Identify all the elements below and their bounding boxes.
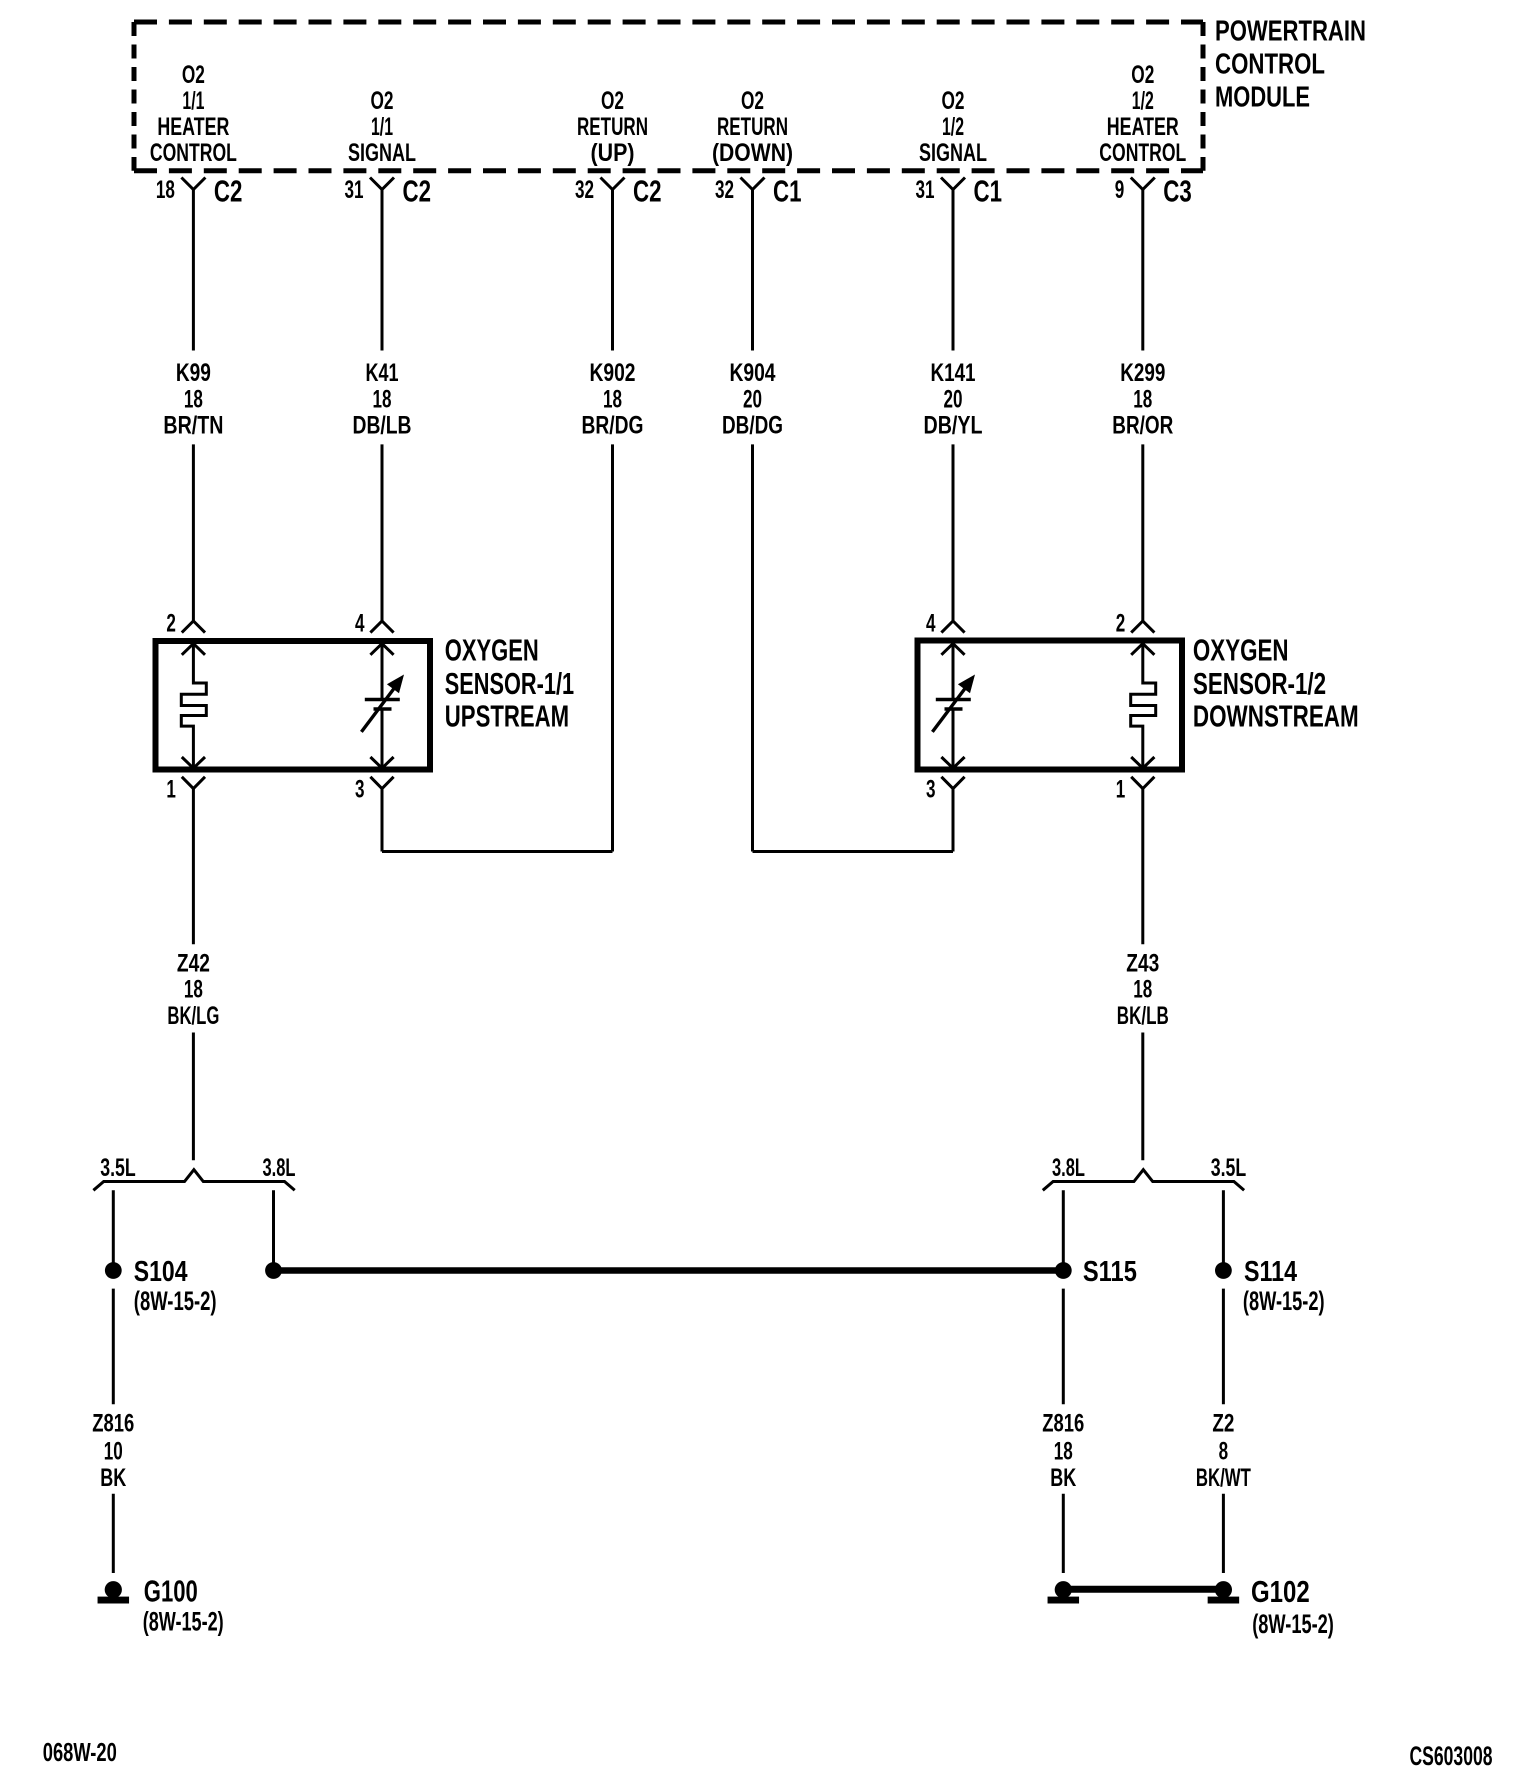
svg-text:BK/LB: BK/LB [1117, 1002, 1169, 1030]
wire from sensor-1/2 pin 3 down [952, 789, 955, 852]
wire Z42 lower segment [192, 1033, 195, 1161]
svg-text:1/2: 1/2 [942, 113, 964, 141]
svg-text:1/1: 1/1 [182, 87, 204, 115]
svg-text:DB/DG: DB/DG [722, 412, 783, 440]
svg-text:31: 31 [916, 176, 935, 204]
svg-text:G102: G102 [1251, 1574, 1310, 1609]
svg-text:1/2: 1/2 [1132, 87, 1154, 115]
svg-text:G100: G100 [144, 1574, 198, 1609]
heater element resistor inside sensor-1/1 [181, 644, 206, 769]
svg-text:1: 1 [166, 776, 176, 804]
sensor-1/1 pin 1 inside chevron [182, 757, 205, 768]
svg-text:4: 4 [355, 610, 365, 638]
variable sensing element inside sensor-1/1 [381, 644, 384, 700]
sensor-1/1 pin 2 outside fork [182, 621, 205, 633]
svg-text:BK: BK [1050, 1464, 1076, 1492]
svg-text:(8W-15-2): (8W-15-2) [134, 1286, 217, 1316]
sensor-1/2 pin 1 outside fork [1131, 777, 1154, 789]
svg-text:10: 10 [104, 1437, 123, 1465]
engine variant split brace (left, Z42) [93, 1170, 294, 1191]
sensor-1/1 pin 1 outside fork [182, 777, 205, 789]
wire Z816 10 BK lower segment [112, 1494, 115, 1573]
svg-text:32: 32 [575, 176, 594, 204]
svg-text:(UP): (UP) [591, 139, 635, 167]
svg-text:RETURN: RETURN [717, 113, 788, 141]
svg-text:C3: C3 [1163, 174, 1192, 209]
sensor-1/1 pin 4 inside chevron [370, 644, 393, 655]
wire from sensor-1/1 pin 3 down [381, 789, 384, 852]
svg-text:O2: O2 [371, 87, 394, 115]
svg-text:18: 18 [184, 976, 203, 1004]
sensor-1/2 pin 1 inside chevron [1131, 757, 1154, 768]
oxygen sensor-1/1 upstream box outline [156, 641, 431, 770]
PCM pin 32 connector C2 fork symbol [601, 178, 625, 190]
wire Z2 8 BK/WT lower segment [1222, 1494, 1225, 1573]
svg-text:(DOWN): (DOWN) [712, 139, 793, 167]
svg-text:O2: O2 [182, 61, 205, 89]
wire K902 lower segment [611, 444, 614, 851]
sensor-1/2 pin 4 inside chevron [941, 644, 964, 655]
sensor-1/1 pin 3 inside chevron [370, 757, 393, 768]
svg-text:CS603008: CS603008 [1410, 1741, 1493, 1771]
svg-text:RETURN: RETURN [577, 113, 648, 141]
svg-text:O2: O2 [942, 87, 965, 115]
svg-text:3.5L: 3.5L [1211, 1154, 1247, 1182]
variable sensing element inside sensor-1/2 [952, 644, 955, 700]
wire 3.5L branch to S114 [1222, 1190, 1225, 1270]
svg-text:K299: K299 [1120, 359, 1165, 387]
svg-text:18: 18 [184, 385, 203, 413]
sensor-1/2 pin 3 outside fork [941, 777, 964, 789]
svg-text:(8W-15-2): (8W-15-2) [143, 1607, 224, 1637]
splice S115 dot [1055, 1262, 1072, 1279]
wire jog from sensor-1/2 pin 3 to K904 (horizontal) [753, 850, 954, 853]
wire 3.8L branch to splice [272, 1190, 275, 1270]
wire Z43 upper segment [1141, 789, 1144, 945]
wire Z42 upper segment [192, 789, 195, 945]
svg-text:C1: C1 [974, 174, 1003, 209]
svg-text:Z43: Z43 [1126, 949, 1159, 977]
svg-text:C1: C1 [773, 174, 802, 209]
ground G102 link wire [1063, 1586, 1223, 1593]
PCM pin 31 connector C1 fork symbol [941, 178, 965, 190]
wire Z43 lower segment [1141, 1033, 1144, 1161]
svg-text:BK/LG: BK/LG [167, 1002, 219, 1030]
svg-text:068W-20: 068W-20 [43, 1737, 117, 1767]
svg-text:(8W-15-2): (8W-15-2) [1243, 1286, 1325, 1316]
oxygen sensor-1/2 downstream box outline [918, 641, 1183, 770]
svg-text:3.5L: 3.5L [100, 1154, 136, 1182]
wire K99 lower segment [192, 444, 195, 621]
svg-text:OXYGEN: OXYGEN [445, 633, 539, 668]
svg-text:MODULE: MODULE [1215, 82, 1310, 114]
svg-text:K141: K141 [931, 359, 976, 387]
svg-text:O2: O2 [601, 87, 624, 115]
svg-text:Z2: Z2 [1212, 1410, 1234, 1438]
wire K99 upper segment [192, 190, 195, 351]
svg-text:K41: K41 [366, 359, 399, 387]
wire Z816 18 BK upper segment (S115 to label) [1062, 1289, 1065, 1405]
svg-text:4: 4 [926, 610, 936, 638]
wire Z2 8 BK/WT upper segment (S114 to label) [1222, 1289, 1225, 1405]
wire Z816 10 BK upper segment (S104 to label) [112, 1289, 115, 1405]
powertrain control module U1 (PCM) dashed enclosure [134, 20, 1203, 25]
svg-text:2: 2 [1116, 610, 1126, 638]
splice S114 dot [1215, 1262, 1232, 1279]
svg-text:20: 20 [743, 385, 762, 413]
svg-text:BR/TN: BR/TN [163, 412, 223, 440]
sensor-1/1 pin 4 outside fork [370, 621, 393, 633]
ground G102 symbol (right) [1215, 1581, 1232, 1598]
svg-text:SENSOR-1/1: SENSOR-1/1 [445, 666, 574, 701]
svg-text:31: 31 [345, 176, 364, 204]
wire K41 lower segment [381, 444, 384, 621]
sensor-1/2 pin 3 inside chevron [941, 757, 964, 768]
svg-text:POWERTRAIN: POWERTRAIN [1215, 16, 1366, 48]
svg-text:2: 2 [166, 610, 176, 638]
PCM pin 18 connector C2 fork symbol [181, 178, 205, 190]
svg-text:Z816: Z816 [1042, 1410, 1084, 1438]
svg-text:3.8L: 3.8L [1052, 1154, 1085, 1182]
splice S104 dot [105, 1262, 122, 1279]
sensor-1/1 pin 3 outside fork [370, 777, 393, 789]
svg-text:HEATER: HEATER [1107, 113, 1179, 141]
svg-text:8: 8 [1219, 1437, 1229, 1465]
svg-text:CONTROL: CONTROL [1099, 139, 1186, 167]
svg-text:1/1: 1/1 [371, 113, 393, 141]
wire jog from sensor-1/1 pin 3 to K902 (horizontal) [382, 850, 613, 853]
wire K299 lower segment [1141, 444, 1144, 621]
wire K299 upper segment [1141, 190, 1144, 351]
wire 3.8L branch to S115 [1062, 1190, 1065, 1270]
svg-text:18: 18 [1133, 385, 1152, 413]
svg-text:18: 18 [1054, 1437, 1073, 1465]
wire K141 upper segment [952, 190, 955, 351]
svg-text:BR/OR: BR/OR [1112, 412, 1173, 440]
svg-text:O2: O2 [1131, 61, 1154, 89]
ground G100 symbol [105, 1581, 122, 1598]
svg-text:O2: O2 [741, 87, 764, 115]
sensor-1/2 pin 2 outside fork [1131, 621, 1154, 633]
svg-text:S115: S115 [1083, 1256, 1137, 1288]
PCM pin 32 connector C1 fork symbol [741, 178, 765, 190]
svg-text:DB/YL: DB/YL [924, 412, 983, 440]
PCM pin 31 connector C2 fork symbol [370, 178, 394, 190]
svg-text:C2: C2 [214, 174, 243, 209]
svg-text:18: 18 [603, 385, 622, 413]
sensor-1/2 pin 2 inside chevron [1131, 644, 1154, 655]
wire K904 upper segment [751, 190, 754, 351]
svg-text:Z42: Z42 [177, 949, 210, 977]
svg-text:SIGNAL: SIGNAL [919, 139, 987, 167]
svg-text:3: 3 [926, 776, 936, 804]
wire 3.5L branch to S104 [112, 1190, 115, 1270]
svg-text:CONTROL: CONTROL [150, 139, 237, 167]
svg-text:S104: S104 [134, 1256, 188, 1288]
wire K41 upper segment [381, 190, 384, 351]
svg-text:18: 18 [373, 385, 392, 413]
svg-text:3: 3 [355, 776, 365, 804]
svg-text:1: 1 [1116, 776, 1126, 804]
svg-text:SENSOR-1/2: SENSOR-1/2 [1193, 666, 1326, 701]
svg-text:OXYGEN: OXYGEN [1193, 633, 1289, 668]
svg-text:Z816: Z816 [92, 1410, 134, 1438]
splice junction dot (3.8L branch) [265, 1262, 282, 1279]
svg-text:HEATER: HEATER [157, 113, 229, 141]
svg-text:18: 18 [1133, 976, 1152, 1004]
heater element resistor inside sensor-1/2 [1131, 644, 1156, 769]
svg-text:20: 20 [944, 385, 963, 413]
svg-text:3.8L: 3.8L [263, 1154, 296, 1182]
sensor-1/2 pin 4 outside fork [941, 621, 964, 633]
svg-text:C2: C2 [403, 174, 432, 209]
wire Z816 18 BK lower segment [1062, 1494, 1065, 1573]
svg-text:DB/LB: DB/LB [353, 412, 412, 440]
svg-text:CONTROL: CONTROL [1215, 49, 1325, 81]
svg-text:C2: C2 [633, 174, 662, 209]
engine variant split brace (right, Z43) [1043, 1170, 1244, 1191]
svg-text:K904: K904 [730, 359, 776, 387]
wire K141 lower segment [952, 444, 955, 621]
svg-text:S114: S114 [1244, 1256, 1297, 1288]
svg-text:(8W-15-2): (8W-15-2) [1252, 1609, 1334, 1639]
wire K904 lower segment [751, 444, 754, 851]
svg-text:32: 32 [715, 176, 734, 204]
svg-text:UPSTREAM: UPSTREAM [445, 699, 569, 734]
svg-text:BK: BK [100, 1464, 126, 1492]
bus wire between 3.8L splice and S115 [274, 1267, 1064, 1274]
svg-text:9: 9 [1115, 176, 1125, 204]
svg-text:BR/DG: BR/DG [582, 412, 644, 440]
ground G102 symbol (left) [1055, 1581, 1072, 1598]
svg-text:K99: K99 [176, 359, 211, 387]
PCM pin 9 connector C3 fork symbol [1131, 178, 1155, 190]
svg-text:SIGNAL: SIGNAL [348, 139, 416, 167]
svg-text:BK/WT: BK/WT [1196, 1464, 1251, 1492]
wire K902 upper segment [611, 190, 614, 351]
svg-text:18: 18 [156, 176, 175, 204]
svg-text:DOWNSTREAM: DOWNSTREAM [1193, 699, 1359, 734]
sensor-1/1 pin 2 inside chevron [182, 644, 205, 655]
svg-text:K902: K902 [590, 359, 636, 387]
